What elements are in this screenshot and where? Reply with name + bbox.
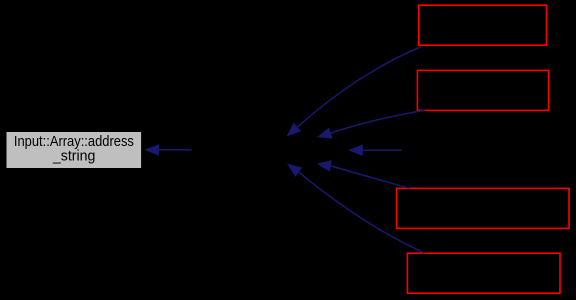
- edge hidden right node -> middle-node (horizontal): [348, 144, 402, 156]
- edge middle-node -> callee: [145, 144, 192, 156]
- edge caller box 3 -> middle-node: [317, 160, 409, 188]
- svg-text:_string: _string: [52, 147, 95, 164]
- node caller box 2 (red): [417, 70, 548, 110]
- node caller box 3 (red, wide): [397, 188, 570, 228]
- edge caller box 2 -> middle-node: [317, 110, 425, 138]
- node Input::Array::address_string (callee, grey): [6, 131, 142, 168]
- edge caller box 4 -> middle-node (curved): [287, 164, 425, 253]
- node caller box 1 (red, top): [419, 5, 547, 45]
- edge caller box 1 -> middle-node (curved): [287, 47, 421, 137]
- node caller box 4 (red, bottom): [407, 253, 560, 293]
